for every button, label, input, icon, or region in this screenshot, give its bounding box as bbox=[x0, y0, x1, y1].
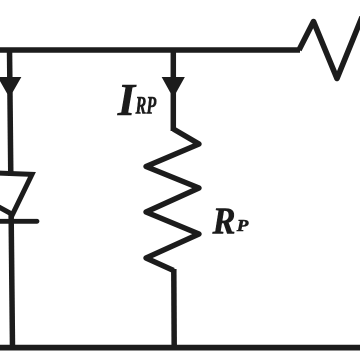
label I_RP bbox=[117, 74, 157, 125]
diode D (left branch, clipped at left edge) bbox=[0, 173, 37, 221]
svg-text:I: I bbox=[117, 74, 137, 125]
wire: top rail bbox=[0, 47, 300, 53]
wire: middle branch upper bbox=[171, 48, 177, 131]
svg-text:P: P bbox=[236, 216, 249, 235]
wire: left branch vertical (anode side) bbox=[10, 48, 11, 176]
resistor (top right, clipped at edge) bbox=[299, 17, 360, 79]
wire: middle branch lower bbox=[171, 269, 177, 348]
svg-text:RP: RP bbox=[135, 93, 157, 120]
current arrow I_RP (middle branch) bbox=[163, 78, 185, 97]
wire: bottom rail bbox=[0, 345, 360, 351]
svg-text:R: R bbox=[212, 200, 236, 242]
label R_P bbox=[212, 200, 249, 242]
wire: left branch vertical (cathode side) bbox=[11, 211, 12, 348]
resistor R_P zigzag bbox=[146, 129, 199, 271]
current arrow (left branch) bbox=[0, 78, 21, 97]
